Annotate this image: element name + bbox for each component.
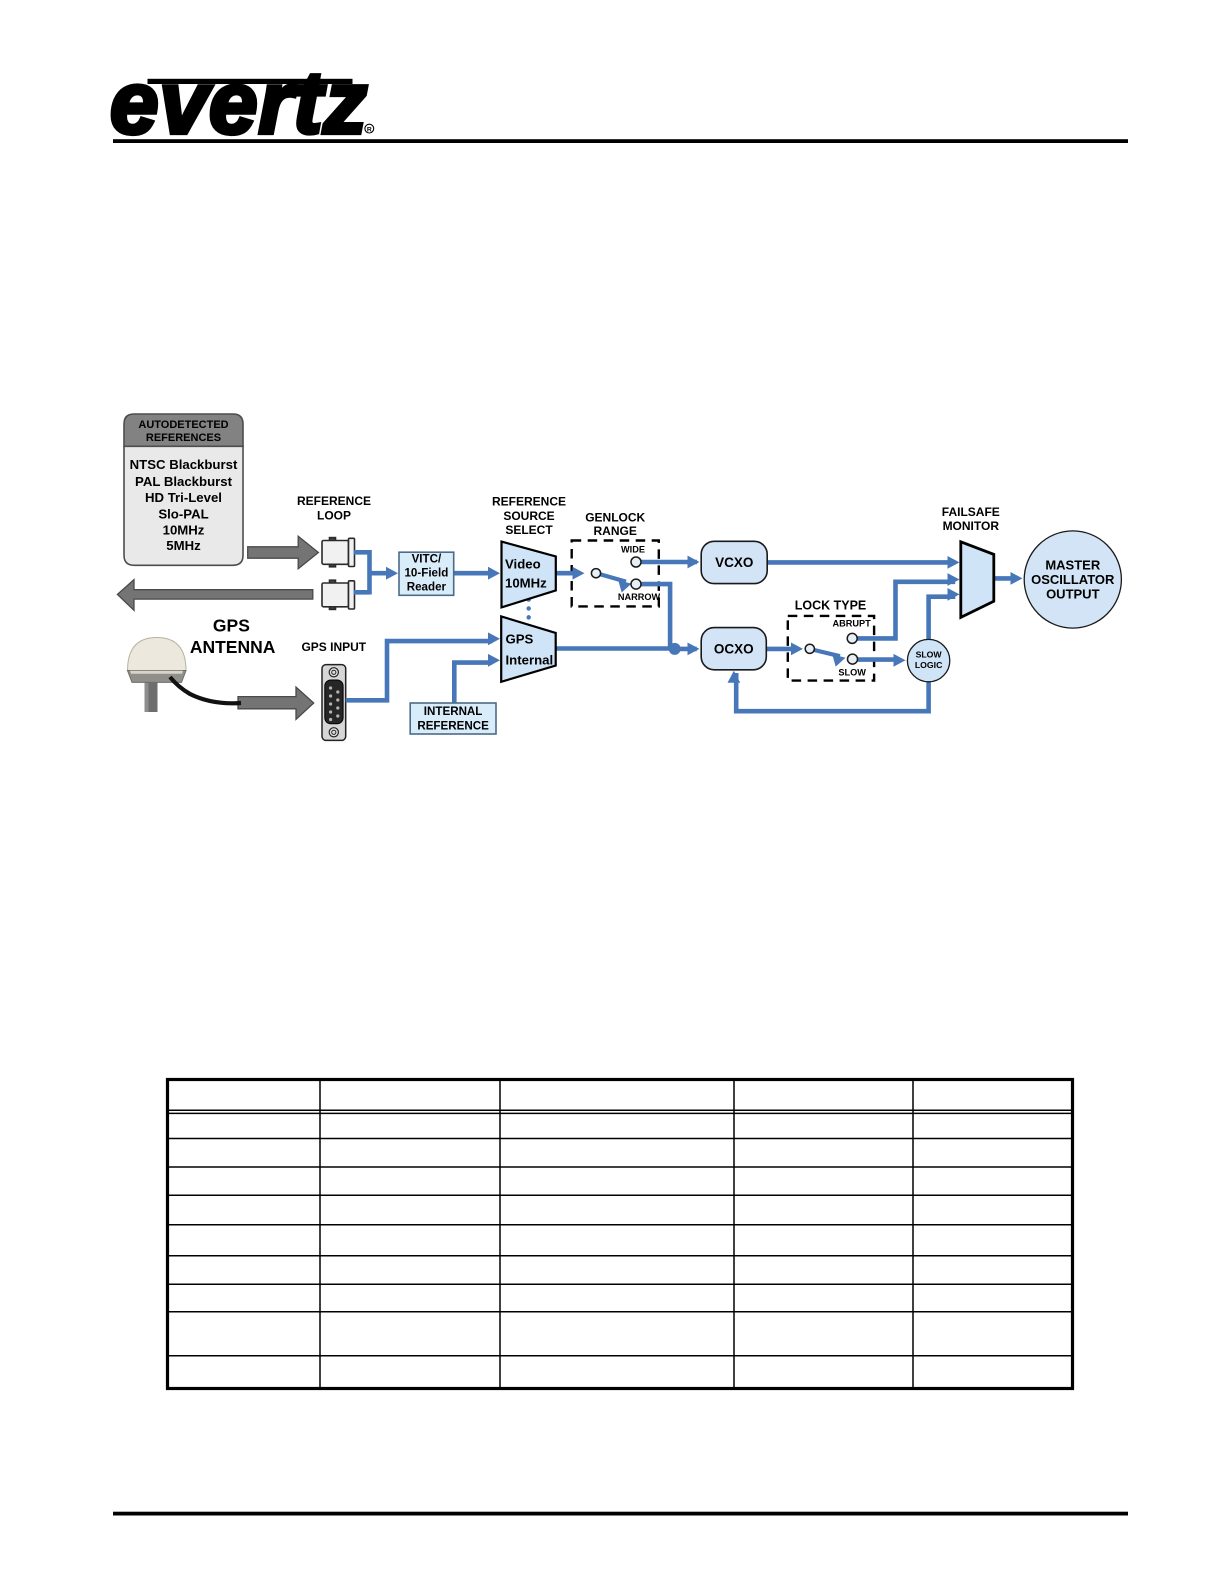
svg-text:GPS: GPS bbox=[213, 616, 250, 636]
svg-text:Slo-PAL: Slo-PAL bbox=[158, 507, 208, 522]
svg-text:MASTER: MASTER bbox=[1045, 557, 1101, 572]
svg-text:GENLOCK: GENLOCK bbox=[585, 510, 645, 524]
svg-text:INTERNAL: INTERNAL bbox=[424, 705, 483, 718]
svg-text:AUTODETECTED: AUTODETECTED bbox=[138, 419, 228, 431]
svg-text:GPS: GPS bbox=[506, 631, 534, 646]
svg-text:HD Tri-Level: HD Tri-Level bbox=[145, 490, 222, 505]
svg-text:MONITOR: MONITOR bbox=[943, 519, 1000, 533]
svg-text:SOURCE: SOURCE bbox=[503, 509, 554, 523]
svg-text:SLOW: SLOW bbox=[838, 668, 866, 678]
svg-text:VITC/: VITC/ bbox=[412, 553, 442, 566]
svg-text:REFERENCE: REFERENCE bbox=[297, 494, 371, 508]
svg-text:evertz: evertz bbox=[110, 53, 368, 152]
svg-text:Internal: Internal bbox=[506, 652, 554, 667]
svg-text:10MHz: 10MHz bbox=[505, 576, 547, 591]
svg-text:ANTENNA: ANTENNA bbox=[190, 637, 276, 657]
svg-text:SLOW: SLOW bbox=[916, 649, 943, 659]
svg-text:LOOP: LOOP bbox=[317, 509, 351, 523]
svg-text:R: R bbox=[367, 126, 372, 133]
svg-text:REFERENCE: REFERENCE bbox=[492, 495, 566, 509]
svg-text:Video: Video bbox=[505, 557, 541, 572]
svg-text:10-Field: 10-Field bbox=[404, 567, 448, 580]
svg-text:REFERENCE: REFERENCE bbox=[417, 720, 489, 733]
svg-text:10MHz: 10MHz bbox=[163, 522, 205, 537]
svg-text:WIDE: WIDE bbox=[621, 544, 645, 554]
svg-text:OSCILLATOR: OSCILLATOR bbox=[1031, 572, 1115, 587]
svg-text:5MHz: 5MHz bbox=[166, 538, 201, 553]
svg-text:SELECT: SELECT bbox=[505, 523, 553, 537]
svg-text:ABRUPT: ABRUPT bbox=[832, 618, 871, 628]
svg-text:RANGE: RANGE bbox=[594, 524, 637, 538]
svg-text:LOCK TYPE: LOCK TYPE bbox=[795, 598, 867, 612]
svg-text:LOGIC: LOGIC bbox=[915, 660, 943, 670]
svg-text:Reader: Reader bbox=[407, 581, 447, 594]
svg-text:FAILSAFE: FAILSAFE bbox=[942, 505, 1000, 519]
svg-text:GPS INPUT: GPS INPUT bbox=[301, 640, 366, 654]
svg-text:OCXO: OCXO bbox=[714, 642, 754, 657]
svg-text:VCXO: VCXO bbox=[715, 555, 753, 570]
svg-text:OUTPUT: OUTPUT bbox=[1046, 587, 1100, 602]
svg-text:NTSC Blackburst: NTSC Blackburst bbox=[130, 457, 238, 472]
svg-text:REFERENCES: REFERENCES bbox=[146, 432, 221, 444]
svg-text:PAL Blackburst: PAL Blackburst bbox=[135, 474, 233, 489]
svg-text:NARROW: NARROW bbox=[618, 592, 661, 602]
